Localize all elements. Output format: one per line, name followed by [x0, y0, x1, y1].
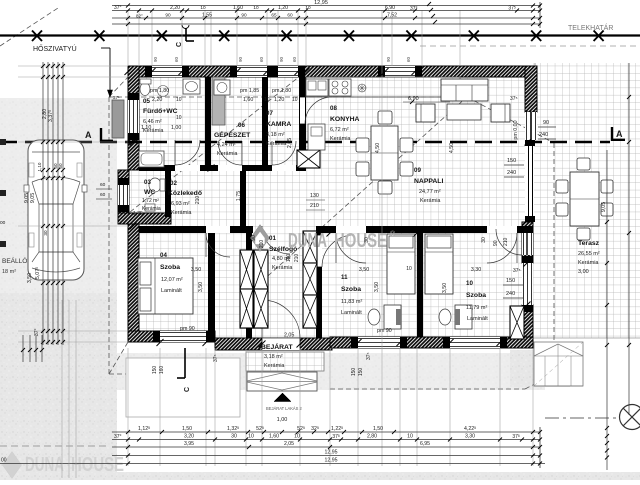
exterior wall right mid (room10 side) [522, 222, 533, 263]
svg-text:6,93 m²: 6,93 m² [171, 201, 190, 207]
svg-text:pm 90: pm 90 [180, 326, 195, 332]
terrace tile grid [533, 63, 640, 338]
door gap bath [175, 165, 200, 171]
svg-text:Fürdő+WC: Fürdő+WC [143, 108, 178, 115]
boundary X mark [219, 31, 229, 42]
interior wall under bath row [139, 165, 306, 171]
exterior wall left upper [128, 66, 139, 170]
svg-text:240: 240 [539, 132, 548, 138]
svg-text:DUNA: DUNA [25, 454, 64, 476]
svg-text:1,00: 1,00 [171, 125, 181, 131]
svg-text:10: 10 [407, 434, 413, 440]
telekhatar property boundary line [0, 34, 640, 36]
svg-text:HOUSE: HOUSE [334, 230, 387, 252]
door gap room04 [206, 226, 230, 233]
svg-text:HŐSZIVATYÚ: HŐSZIVATYÚ [33, 44, 77, 53]
svg-text:90: 90 [165, 13, 171, 18]
svg-text:2,20: 2,20 [170, 5, 180, 11]
tree circle symbol bottom right [620, 405, 640, 430]
svg-text:210: 210 [195, 196, 201, 205]
wall crossing slash ticks left right [130, 139, 137, 146]
boundary X mark [94, 31, 104, 42]
horizontal extension lines left margin [18, 65, 128, 67]
svg-text:Laminált: Laminált [341, 310, 362, 316]
svg-text:pm 1,80: pm 1,80 [272, 88, 291, 94]
svg-text:Kerámia: Kerámia [266, 141, 287, 147]
svg-text:37⁵: 37⁵ [513, 268, 521, 274]
svg-text:Terasz: Terasz [578, 240, 600, 247]
svg-text:1,60: 1,60 [269, 434, 279, 440]
door gap gepeszet [218, 165, 242, 171]
left bottom verticals to page bottom [22, 335, 24, 362]
window bath top 90/60 [152, 66, 182, 77]
svg-text:90: 90 [386, 56, 391, 62]
svg-text:210: 210 [259, 240, 265, 249]
boundary X mark [157, 31, 167, 42]
svg-text:2,05: 2,05 [284, 333, 294, 339]
terrace table [570, 172, 599, 226]
svg-text:KAMRA: KAMRA [266, 121, 291, 128]
svg-text:37°: 37° [34, 328, 40, 336]
svg-text:Kerámia: Kerámia [171, 210, 192, 216]
axis C marker top [185, 28, 187, 41]
exterior wall WC bump left [118, 170, 129, 224]
dining chair top [378, 111, 392, 124]
svg-text:3,18 m²: 3,18 m² [264, 354, 283, 360]
svg-text:12,95: 12,95 [325, 450, 338, 456]
terrace chairs left [556, 180, 568, 193]
door gap kamra [272, 165, 296, 171]
water heater box kamra-konyha [297, 150, 320, 168]
svg-text:HOUSE: HOUSE [71, 454, 124, 476]
vertical extension line kitchen axis [381, 10, 383, 466]
boiler gepeszet [214, 80, 230, 95]
svg-text:90: 90 [241, 13, 247, 18]
svg-text:60: 60 [100, 182, 106, 188]
svg-text:BEÁLLÓ: BEÁLLÓ [2, 256, 27, 265]
top dimension line 1 overall [112, 5, 541, 7]
svg-text:30: 30 [481, 237, 487, 243]
dining chair bottom [378, 181, 392, 194]
svg-text:37°: 37° [114, 434, 122, 440]
svg-text:10: 10 [253, 5, 259, 10]
window kitchen top 90/60 [385, 66, 415, 77]
door arc szelfogo-corridor [262, 226, 290, 254]
svg-text:4,50: 4,50 [375, 143, 381, 153]
dining chairs right [400, 138, 413, 152]
kitchen counter top [306, 77, 460, 97]
desk room10 [455, 305, 472, 329]
svg-text:1,10: 1,10 [141, 125, 151, 131]
bottom wall gap entrance door [262, 338, 300, 350]
svg-text:2,80: 2,80 [367, 434, 377, 440]
svg-text:pm 90: pm 90 [377, 328, 392, 334]
svg-text:pm 1,85: pm 1,85 [240, 88, 259, 94]
svg-text:10: 10 [248, 434, 254, 440]
bottom dimension line 4 [112, 455, 540, 457]
svg-text:2,20: 2,20 [152, 97, 162, 103]
svg-text:10: 10 [294, 434, 300, 440]
svg-text:60: 60 [406, 56, 411, 62]
svg-text:Kerámia: Kerámia [420, 198, 441, 204]
svg-text:A: A [85, 130, 92, 140]
svg-text:Kerámia: Kerámia [264, 363, 285, 369]
door arc gepeszet [218, 141, 242, 165]
svg-text:3,95: 3,95 [184, 441, 194, 447]
svg-text:03: 03 [144, 179, 151, 186]
top dimension line 3 piers [112, 17, 541, 19]
svg-text:1,20: 1,20 [274, 97, 284, 103]
svg-text:30: 30 [364, 237, 370, 243]
svg-text:00: 00 [0, 220, 6, 226]
door gap room10 [487, 226, 517, 233]
svg-text:60: 60 [259, 56, 264, 62]
svg-text:Szélfogó: Szélfogó [269, 246, 297, 253]
gray driveway strip left lower [0, 293, 117, 480]
door arc entrance [262, 300, 300, 338]
tall unit fridge [308, 124, 325, 150]
bottom dimension line 5 long [0, 463, 545, 465]
bottom dimension line 3 [112, 446, 540, 448]
armchair left [416, 104, 435, 122]
svg-text:12,95: 12,95 [325, 458, 338, 464]
terrace edge lines [533, 337, 640, 339]
door arc bath [175, 140, 200, 165]
interior wall WC right [165, 171, 171, 217]
svg-text:11,83 m²: 11,83 m² [341, 299, 362, 305]
svg-text:9,05: 9,05 [601, 202, 607, 212]
svg-text:130: 130 [310, 193, 319, 199]
gray ground patch right of porch [510, 350, 570, 387]
top mid diagonal tick column [427, 2, 431, 6]
svg-text:37°: 37° [410, 6, 418, 12]
svg-text:2,65: 2,65 [287, 138, 293, 148]
interior wall nappali - bedrooms [322, 226, 533, 233]
svg-text:10: 10 [406, 266, 412, 272]
boundary X mark [531, 31, 541, 42]
svg-text:65: 65 [271, 13, 277, 18]
roof hip dashed diagonals [130, 72, 305, 212]
svg-text:KONYHA: KONYHA [330, 116, 360, 123]
boundary X mark [406, 31, 416, 42]
exterior wall right upper [525, 66, 537, 112]
terrace door room10 90/210 [522, 229, 533, 255]
door arc kamra [272, 141, 296, 165]
gray ground band below building [117, 353, 545, 390]
door gap kamra-konyha wall [300, 97, 305, 124]
window left wall bath 110 [128, 100, 139, 133]
kitchen sink [358, 84, 366, 92]
window room10 right 150/240 [522, 263, 533, 305]
svg-text:37°: 37° [114, 5, 122, 11]
svg-text:TELEKHATÁR: TELEKHATÁR [568, 23, 613, 32]
svg-text:24,77 m²: 24,77 m² [419, 189, 441, 195]
svg-text:Laminált: Laminált [467, 316, 488, 322]
watermark fragment bottom left [3, 452, 22, 479]
exterior wall right lower [522, 305, 533, 348]
svg-text:160: 160 [159, 366, 165, 375]
svg-text:90: 90 [251, 235, 257, 241]
door gap szelfogo right to nappali [316, 235, 322, 267]
wardrobe szelfogo left column [254, 250, 268, 289]
interior wall szelfogo right [316, 226, 322, 338]
svg-text:00: 00 [1, 458, 7, 464]
svg-text:Kerámia: Kerámia [578, 260, 599, 266]
window gepeszet top 90/60 [237, 66, 267, 77]
door arc szelfogo-nappali [322, 235, 354, 267]
svg-text:07: 07 [266, 110, 273, 117]
interior wall rooms 11-10 [417, 233, 423, 337]
window room11 bottom [358, 337, 400, 348]
svg-text:pm 1,80: pm 1,80 [150, 88, 169, 94]
svg-text:Kerámia: Kerámia [272, 265, 293, 271]
terrace chair bottom [577, 228, 590, 240]
sofa [441, 79, 488, 101]
svg-text:Szoba: Szoba [160, 264, 180, 271]
svg-text:90: 90 [543, 120, 549, 126]
door arc kamra-konyha [305, 97, 332, 124]
svg-text:WC: WC [144, 189, 155, 196]
washbasin WC [145, 204, 155, 211]
svg-text:26,55 m²: 26,55 m² [578, 251, 600, 257]
door gap room11 [336, 226, 366, 233]
interior wall bath-gepeszet [205, 77, 211, 165]
hob 4 burners [329, 79, 351, 96]
svg-text:9,05: 9,05 [30, 193, 36, 203]
top dimension line 2 openings [112, 10, 541, 12]
svg-text:60: 60 [100, 192, 106, 198]
right vertical dimension line inner [606, 150, 608, 470]
svg-text:150: 150 [507, 158, 516, 164]
svg-text:3,20: 3,20 [184, 434, 194, 440]
bottom right tick column [539, 427, 541, 468]
svg-text:3,50: 3,50 [198, 282, 204, 292]
gray stripe page bottom [0, 472, 640, 480]
svg-text:BEJÁRAT: BEJÁRAT [261, 342, 293, 351]
axis C marker bottom [184, 348, 186, 378]
car in driveway [28, 140, 84, 280]
svg-text:1,10: 1,10 [37, 162, 42, 171]
floor tile grid WC bump [118, 171, 139, 224]
svg-text:90: 90 [153, 56, 158, 62]
svg-text:1,75: 1,75 [133, 211, 143, 217]
bed room11 [387, 234, 415, 294]
desk room11 [384, 305, 401, 329]
bottom dimension line 2 [112, 439, 540, 441]
interior wall szelfogo left [246, 226, 252, 338]
terrace chair top [577, 158, 590, 170]
svg-text:09: 09 [414, 167, 421, 174]
svg-text:150: 150 [152, 366, 158, 375]
bathtub [139, 151, 164, 167]
svg-text:10: 10 [264, 97, 270, 103]
svg-text:Kerámia: Kerámia [217, 151, 238, 157]
boundary X mark [469, 31, 479, 42]
window WC bump left 60/60 [118, 185, 129, 205]
svg-text:60: 60 [58, 163, 63, 169]
svg-text:210: 210 [503, 237, 509, 246]
interior wall corridor-szelfogo vertical [240, 171, 246, 226]
dimension extension lines above building [127, 10, 129, 66]
svg-text:90: 90 [279, 56, 284, 62]
svg-text:6,95: 6,95 [420, 441, 430, 447]
svg-text:3,50: 3,50 [191, 267, 201, 273]
svg-text:150: 150 [358, 368, 364, 377]
coffee table [447, 104, 481, 120]
svg-text:11,79 m²: 11,79 m² [466, 305, 487, 311]
section line A-A [0, 141, 610, 143]
window kamra top 60/60 [278, 66, 298, 77]
svg-text:30: 30 [231, 434, 237, 440]
exterior wall bottom szelfogo/bejarat [215, 338, 332, 350]
roof eave dashed outline [109, 96, 467, 98]
wall crossing slash ticks bottom walls [157, 339, 164, 346]
svg-text:6,72 m²: 6,72 m² [330, 127, 349, 133]
dashed setback line below boundary [420, 45, 640, 47]
svg-text:37⁵: 37⁵ [510, 96, 518, 102]
svg-text:02: 02 [170, 180, 177, 187]
gray driveway strip left upper [0, 98, 117, 293]
svg-text:NAPPALI: NAPPALI [414, 178, 443, 185]
svg-text:10: 10 [200, 5, 206, 10]
svg-text:pm 0,00: pm 0,00 [513, 120, 519, 139]
svg-text:4,50: 4,50 [449, 143, 455, 153]
porch canopy truss [247, 372, 317, 391]
double sink kitchen [306, 79, 328, 96]
svg-text:12,95: 12,95 [314, 0, 328, 6]
svg-text:60: 60 [174, 56, 179, 62]
armchair right [491, 104, 510, 122]
svg-text:60: 60 [292, 56, 297, 62]
svg-text:100: 100 [286, 254, 292, 263]
svg-text:10: 10 [466, 280, 473, 287]
dimension extension lines below building [127, 348, 129, 466]
door arc room04 [206, 233, 230, 257]
svg-text:GÉPÉSZET: GÉPÉSZET [214, 130, 251, 139]
svg-text:®: ® [390, 230, 396, 238]
svg-text:10: 10 [292, 97, 298, 103]
terrace door upper right 90/240 [525, 112, 537, 140]
wardrobe room04 closet [240, 250, 253, 289]
sliding glass wall nappali-terrace [527, 140, 534, 222]
exterior wall left lower [128, 224, 139, 342]
svg-text:Szoba: Szoba [466, 292, 486, 299]
white terrace slab below room04 [126, 358, 240, 417]
car mirrors [24, 185, 29, 192]
svg-text:240: 240 [507, 170, 516, 176]
interior wall corridor bottom / room04 top [139, 226, 253, 233]
porch entry triangle marker [274, 393, 291, 402]
washbasin bath [183, 79, 200, 94]
window room04 bottom [160, 331, 206, 342]
svg-text:C: C [184, 387, 191, 392]
svg-text:6,90: 6,90 [385, 5, 395, 11]
svg-text:1,00: 1,00 [277, 417, 288, 423]
porch outline tiled [246, 352, 324, 371]
svg-text:240: 240 [506, 291, 515, 297]
interior wall kamra-konyha [299, 77, 306, 165]
heat pump unit gray box [112, 100, 124, 138]
bottom left dashed line [0, 445, 110, 447]
svg-text:1,60: 1,60 [233, 5, 243, 11]
svg-text:1,50: 1,50 [373, 426, 383, 432]
floor tile grid building interior [139, 77, 525, 341]
svg-text:05: 05 [143, 98, 150, 105]
svg-text:150: 150 [351, 368, 357, 377]
rear canopy structure [534, 342, 583, 386]
svg-text:150: 150 [506, 278, 515, 284]
svg-text:30: 30 [43, 230, 48, 236]
svg-text:Kerámia: Kerámia [142, 206, 161, 212]
svg-text:Laminált: Laminált [161, 288, 182, 294]
top right tick column [539, 2, 541, 28]
svg-text:2,05: 2,05 [284, 441, 294, 447]
toilet WC room [149, 178, 161, 192]
svg-text:BEJÁRAT LAKÁS 2: BEJÁRAT LAKÁS 2 [266, 406, 303, 411]
exterior wall top [128, 66, 525, 77]
svg-text:11: 11 [341, 274, 348, 281]
svg-text:3,30: 3,30 [465, 434, 475, 440]
svg-text:06: 06 [238, 122, 245, 129]
boundary X mark [32, 31, 42, 42]
svg-text:12,07 m²: 12,07 m² [161, 277, 183, 283]
svg-text:18 m²: 18 m² [2, 269, 16, 275]
car wheels [29, 163, 34, 177]
top-left corner dashed diagonal [0, 8, 58, 46]
svg-text:10: 10 [176, 115, 182, 121]
terrace chairs right [601, 180, 613, 193]
svg-text:3,00: 3,00 [578, 269, 589, 275]
svg-text:90: 90 [238, 56, 243, 62]
svg-text:7,52: 7,52 [387, 13, 397, 19]
svg-text:37⁵: 37⁵ [366, 352, 372, 360]
svg-text:01: 01 [269, 235, 276, 242]
svg-text:Szoba: Szoba [341, 286, 361, 293]
door arc terrace room10 [496, 229, 522, 255]
svg-text:A: A [616, 129, 623, 139]
toilet bath [140, 83, 150, 96]
left vertical dimension lines [42, 62, 44, 345]
C axis hook curl [182, 25, 189, 29]
svg-text:3,30: 3,30 [471, 267, 481, 273]
svg-text:90: 90 [493, 240, 499, 246]
svg-text:1,60: 1,60 [243, 97, 253, 103]
boundary X mark [594, 31, 604, 42]
svg-text:4,24 m²: 4,24 m² [217, 142, 236, 148]
svg-text:37⁵: 37⁵ [213, 354, 219, 362]
dining chairs left [356, 138, 369, 152]
svg-text:04: 04 [160, 252, 167, 259]
exterior wall bottom rooms 11-10 [330, 337, 533, 348]
dash-dot line bottom right [545, 417, 619, 419]
svg-text:1,72 m²: 1,72 m² [142, 198, 159, 204]
door arc room10 [487, 233, 517, 263]
bed room04 [138, 258, 193, 314]
left edge fence post squares [0, 139, 6, 145]
svg-text:08: 08 [330, 105, 337, 112]
boundary X mark [344, 31, 354, 42]
svg-text:210: 210 [310, 203, 319, 209]
window room10 bottom [450, 337, 500, 348]
svg-text:60: 60 [287, 13, 293, 18]
svg-text:3,50: 3,50 [442, 283, 448, 293]
top dimension line 4 [112, 23, 541, 25]
svg-text:Kerámia: Kerámia [330, 136, 351, 142]
svg-text:82°: 82° [136, 14, 143, 19]
svg-text:1,50: 1,50 [182, 426, 192, 432]
svg-text:210: 210 [294, 254, 300, 263]
svg-text:10: 10 [176, 97, 182, 103]
